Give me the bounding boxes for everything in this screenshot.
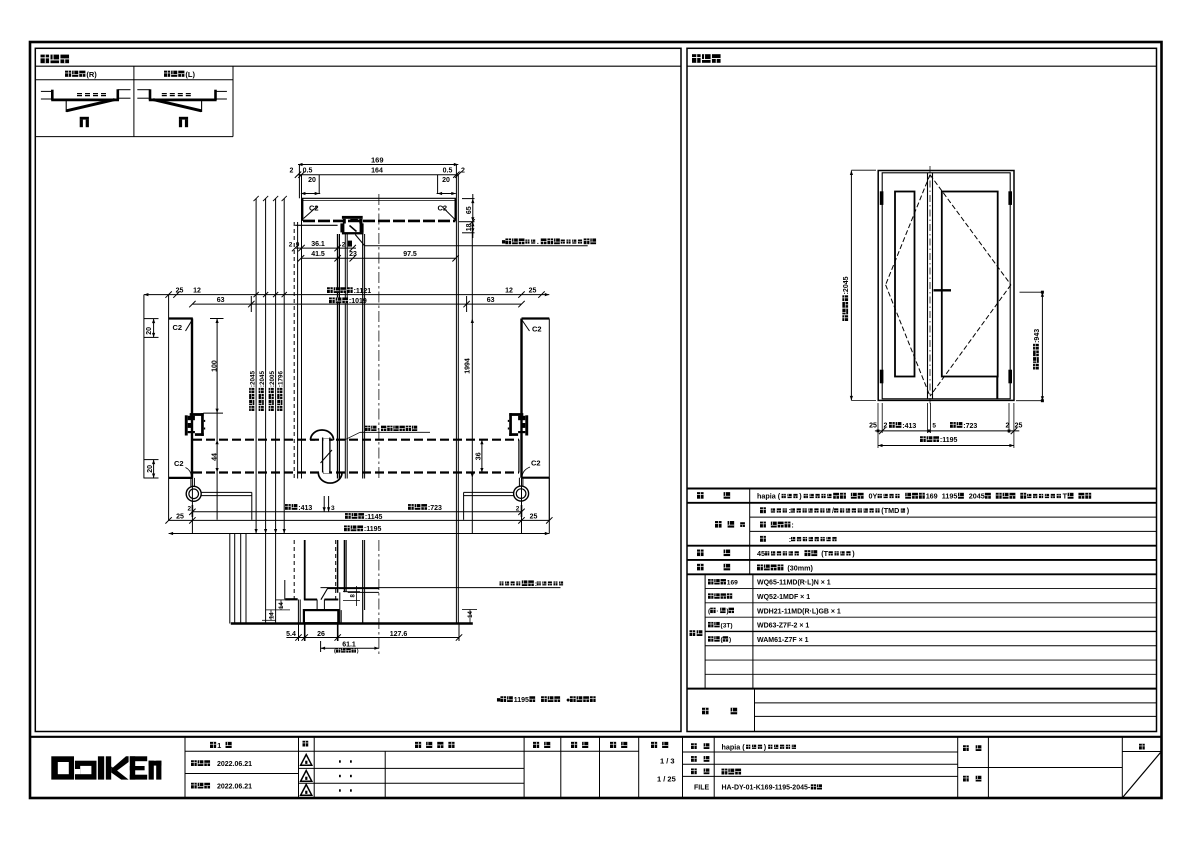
svg-text:36.1: 36.1 <box>311 241 325 248</box>
svg-text:1 / 25: 1 / 25 <box>657 775 676 784</box>
svg-text:12: 12 <box>505 288 513 295</box>
svg-text:20: 20 <box>442 177 450 184</box>
svg-text:C2: C2 <box>438 204 448 213</box>
svg-text:■: ■ <box>502 239 506 246</box>
svg-text:100: 100 <box>211 360 218 372</box>
svg-text:(3T): (3T) <box>721 622 733 629</box>
svg-text::2005: :2005 <box>269 370 276 387</box>
svg-text::: : <box>789 535 791 544</box>
svg-text:63: 63 <box>487 297 495 304</box>
svg-text:2: 2 <box>461 167 465 174</box>
svg-text:1195: 1195 <box>514 697 529 704</box>
svg-text:(: ( <box>334 649 336 655</box>
svg-text:C2: C2 <box>532 325 542 334</box>
svg-text:(T: (T <box>821 549 828 558</box>
svg-text:hapia (: hapia ( <box>757 492 781 501</box>
svg-text:2045: 2045 <box>969 492 985 501</box>
svg-text:): ) <box>357 649 359 655</box>
svg-text:164: 164 <box>371 167 383 174</box>
svg-text:25: 25 <box>176 514 184 521</box>
svg-text::413: :413 <box>298 505 312 512</box>
svg-text:C2: C2 <box>174 459 184 468</box>
svg-text:5: 5 <box>932 423 936 430</box>
svg-text:65: 65 <box>466 206 473 214</box>
svg-text:/: / <box>832 506 834 515</box>
svg-text:·: · <box>716 608 718 615</box>
svg-text:●: ● <box>566 697 570 704</box>
svg-text:5.4: 5.4 <box>286 631 296 638</box>
svg-text:25: 25 <box>869 423 877 430</box>
svg-text:23: 23 <box>349 251 357 258</box>
svg-text::2045: :2045 <box>259 370 266 387</box>
svg-text::: : <box>535 581 537 588</box>
svg-text:20: 20 <box>308 177 316 184</box>
svg-text:61.1: 61.1 <box>342 641 356 648</box>
svg-text:1195: 1195 <box>942 492 958 501</box>
svg-text:WAM61-Z7F × 1: WAM61-Z7F × 1 <box>757 637 809 644</box>
svg-text:2: 2 <box>1006 423 1010 430</box>
svg-text:25: 25 <box>1015 423 1023 430</box>
svg-text:2022.06.21: 2022.06.21 <box>217 761 252 768</box>
svg-text:25: 25 <box>529 288 537 295</box>
svg-text:■: ■ <box>497 697 501 704</box>
svg-text::723: :723 <box>428 505 442 512</box>
svg-text:169: 169 <box>926 492 938 501</box>
svg-text:C2: C2 <box>309 204 319 213</box>
svg-text:FILE: FILE <box>694 785 709 792</box>
svg-text::1195: :1195 <box>364 526 382 533</box>
svg-text:(30mm): (30mm) <box>787 563 813 572</box>
svg-text:): ) <box>726 608 728 615</box>
svg-text:C2: C2 <box>173 323 183 332</box>
svg-text::1019: :1019 <box>349 298 367 305</box>
svg-text::1195: :1195 <box>940 437 958 444</box>
svg-text:14: 14 <box>269 612 275 619</box>
svg-text:hapia (: hapia ( <box>722 743 746 752</box>
svg-text:2: 2 <box>516 506 520 513</box>
svg-text:2: 2 <box>187 506 191 513</box>
svg-text:WDH21-11MD(R·L)GB × 1: WDH21-11MD(R·L)GB × 1 <box>757 608 841 615</box>
svg-text:25: 25 <box>530 514 538 521</box>
svg-text:2: 2 <box>289 242 293 249</box>
svg-text::2045: :2045 <box>843 276 850 294</box>
svg-text:1994: 1994 <box>465 358 472 374</box>
svg-text:127.6: 127.6 <box>390 631 408 638</box>
svg-text::413: :413 <box>902 423 916 430</box>
svg-text:3: 3 <box>331 505 335 512</box>
svg-text::1796: :1796 <box>277 370 284 387</box>
svg-text:1 / 3: 1 / 3 <box>660 757 675 766</box>
svg-text:20: 20 <box>147 465 154 473</box>
svg-text::1121: :1121 <box>354 288 372 295</box>
svg-text:169: 169 <box>371 155 384 164</box>
svg-text::: : <box>789 506 791 515</box>
svg-text::: : <box>791 520 793 529</box>
svg-text:1: 1 <box>217 741 221 750</box>
svg-text:14: 14 <box>468 611 474 618</box>
svg-text:44: 44 <box>211 453 218 461</box>
svg-text:.: . <box>537 239 539 246</box>
svg-text:63: 63 <box>217 297 225 304</box>
svg-text:45: 45 <box>757 549 765 558</box>
svg-text:2: 2 <box>884 423 888 430</box>
svg-text:36: 36 <box>476 452 483 460</box>
svg-text:(TMD: (TMD <box>881 506 899 515</box>
svg-text:(L): (L) <box>185 70 195 79</box>
svg-text:C2: C2 <box>531 459 541 468</box>
svg-text:5: 5 <box>348 242 352 249</box>
svg-text:0Y: 0Y <box>869 492 878 501</box>
svg-text:14: 14 <box>279 602 285 609</box>
svg-text:WQ52-1MDF × 1: WQ52-1MDF × 1 <box>757 594 810 601</box>
svg-text:WQ65-11MD(R·L)N × 1: WQ65-11MD(R·L)N × 1 <box>757 580 831 587</box>
svg-text::943: :943 <box>1034 329 1041 343</box>
svg-text:0.5: 0.5 <box>443 167 453 174</box>
svg-text::723: :723 <box>963 423 977 430</box>
svg-text:2022.06.21: 2022.06.21 <box>217 784 252 791</box>
svg-text:12: 12 <box>193 288 201 295</box>
svg-text:T: T <box>1063 492 1068 501</box>
svg-text:0.5: 0.5 <box>303 167 313 174</box>
svg-text:25: 25 <box>176 288 184 295</box>
svg-text::1145: :1145 <box>365 514 383 521</box>
svg-text:26: 26 <box>317 631 325 638</box>
svg-text:20: 20 <box>146 327 153 335</box>
svg-text:2: 2 <box>290 167 294 174</box>
svg-text::2045: :2045 <box>249 370 256 387</box>
svg-text:97.5: 97.5 <box>403 251 417 258</box>
svg-text:169: 169 <box>727 579 738 586</box>
svg-text:): ) <box>729 637 731 644</box>
svg-text:(R): (R) <box>86 70 97 79</box>
svg-text:HA-DY-01-K169-1195-2045-: HA-DY-01-K169-1195-2045- <box>722 785 811 792</box>
svg-text:WD63-Z7F-2 × 1: WD63-Z7F-2 × 1 <box>757 623 809 630</box>
svg-text:41.5: 41.5 <box>311 251 325 258</box>
